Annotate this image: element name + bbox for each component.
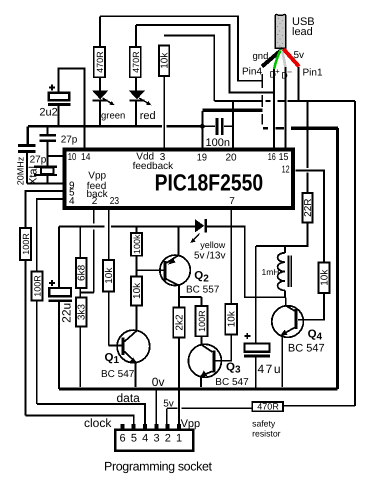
svg-text:10k: 10k [104,267,115,284]
svg-text:10k: 10k [226,310,237,327]
svg-text:green: green [101,110,125,121]
svg-text:Xtal: Xtal [28,166,40,185]
svg-text:15: 15 [279,152,289,163]
svg-text:100n: 100n [206,137,230,149]
svg-text:resistor: resistor [252,429,281,439]
svg-text:19: 19 [197,153,208,164]
svg-text:100R: 100R [197,310,207,332]
svg-text:22u: 22u [59,303,73,323]
svg-text:gnd: gnd [253,51,269,62]
svg-text:470R: 470R [257,402,279,412]
svg-text:5: 5 [131,433,137,445]
svg-text:3k3: 3k3 [77,304,88,321]
svg-text:5v: 5v [163,399,174,410]
svg-text:10: 10 [68,152,77,163]
svg-text:BC 547: BC 547 [288,342,325,354]
svg-text:23: 23 [110,196,120,207]
svg-text:0v: 0v [152,375,165,389]
svg-text:5v /13v: 5v /13v [194,251,225,262]
svg-text:+: + [275,67,280,76]
svg-text:6k8: 6k8 [77,264,88,281]
svg-text:1mH: 1mH [262,267,280,277]
svg-text:yellow: yellow [200,240,226,250]
svg-text:2u2: 2u2 [39,106,57,118]
svg-text:safety: safety [252,419,276,429]
svg-text:470R: 470R [95,51,105,73]
svg-text:clock: clock [84,416,112,430]
svg-text:1: 1 [176,433,182,445]
svg-text:2: 2 [92,196,98,207]
svg-text:10k: 10k [132,282,143,299]
svg-text:7: 7 [229,196,235,207]
svg-text:20MHz: 20MHz [16,156,26,185]
svg-text:2: 2 [165,433,171,445]
svg-text:2k2: 2k2 [174,314,185,331]
svg-text:470R: 470R [131,51,141,73]
svg-text:back: back [87,189,109,200]
svg-text:lead: lead [292,26,313,38]
svg-text:4: 4 [69,196,75,207]
svg-text:–: – [287,67,292,76]
svg-text:100k: 100k [132,234,142,254]
svg-text:BC 557: BC 557 [186,285,220,296]
svg-text:16: 16 [268,152,276,163]
svg-text:3: 3 [153,433,159,445]
svg-text:BC 547: BC 547 [101,369,135,380]
svg-text:5v: 5v [294,50,305,61]
svg-text:data: data [117,391,141,405]
svg-text:Pin4: Pin4 [242,67,262,78]
svg-text:10k: 10k [160,52,171,69]
svg-text:100R: 100R [21,233,31,255]
svg-text:red: red [140,110,156,122]
svg-text:100R: 100R [33,275,43,297]
svg-text:12: 12 [282,165,290,176]
svg-text:10k: 10k [319,269,330,286]
svg-text:14: 14 [81,152,91,163]
svg-text:6: 6 [120,433,126,445]
svg-text:47u: 47u [258,362,281,376]
svg-text:27p: 27p [61,134,78,145]
svg-text:PIC18F2550: PIC18F2550 [155,170,264,196]
svg-text:Pin1: Pin1 [303,68,323,79]
svg-text:4: 4 [142,433,148,445]
svg-text:Vpp: Vpp [88,171,106,182]
svg-text:Vpp: Vpp [181,418,201,430]
svg-text:20: 20 [226,153,238,164]
svg-text:Programming socket: Programming socket [104,460,213,474]
svg-text:BC 547: BC 547 [215,377,249,388]
svg-text:27p: 27p [30,155,47,166]
svg-text:22R: 22R [303,199,314,217]
